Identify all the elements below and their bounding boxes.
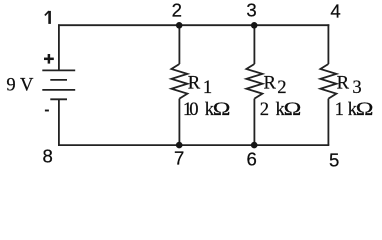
wire R2 branch top stub (253, 25, 255, 64)
battery B1 plate long positive (42, 69, 75, 71)
svg-text:1k: 1k (335, 99, 358, 120)
svg-text:2k: 2k (260, 99, 286, 120)
svg-text:R: R (264, 73, 277, 94)
wire R2 branch bottom stub (253, 99, 255, 146)
battery B1 plate short (50, 79, 67, 81)
wire left vertical from node 1 down to battery (58, 24, 60, 70)
svg-text:9 V: 9 V (6, 75, 34, 96)
resistor R3 zigzag (320, 64, 336, 99)
label value omega of R2 (284, 98, 302, 119)
node junction dot 6 (251, 142, 258, 149)
svg-text:Ω: Ω (356, 98, 374, 119)
svg-text:2: 2 (277, 77, 286, 98)
svg-text:Ω: Ω (213, 98, 231, 119)
svg-text:8: 8 (43, 145, 53, 166)
resistor R2 zigzag (246, 64, 262, 99)
battery B1 plate long (42, 89, 75, 91)
label value omega of R1 (213, 98, 231, 119)
node junction dot 2 (176, 22, 183, 29)
svg-text:7: 7 (174, 148, 184, 169)
svg-text:3: 3 (246, 0, 256, 20)
svg-text:3: 3 (352, 77, 361, 98)
svg-text:R: R (188, 73, 201, 94)
svg-text:1: 1 (203, 77, 212, 98)
svg-text:5: 5 (329, 149, 339, 170)
svg-text:2: 2 (172, 0, 182, 20)
wire bottom rail nodes 8-7-6-5 (58, 144, 329, 146)
battery B1 plate short negative (50, 98, 67, 100)
node junction dot 7 (176, 142, 183, 149)
svg-text:R: R (337, 73, 350, 94)
wire R3 branch top stub (327, 24, 329, 64)
resistor R1 zigzag (171, 64, 187, 99)
svg-text:10k: 10k (183, 99, 215, 120)
battery + polarity mark (44, 54, 54, 64)
wire R3 branch bottom stub (327, 99, 329, 146)
node label 1 (45, 11, 50, 24)
svg-text:6: 6 (247, 149, 257, 170)
wire top rail nodes 1-2-3-4 (58, 24, 329, 26)
wire battery negative down to node 8 (58, 99, 60, 146)
label value omega of R3 (356, 98, 374, 119)
svg-text:4: 4 (330, 1, 340, 22)
node junction dot 3 (251, 22, 258, 29)
svg-text:Ω: Ω (284, 98, 302, 119)
wire R1 branch top stub (178, 25, 180, 64)
battery - polarity mark (45, 110, 49, 112)
wire R1 branch bottom stub (178, 99, 180, 146)
